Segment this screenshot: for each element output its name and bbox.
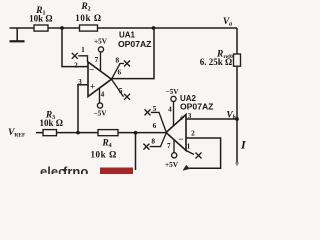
node Vb junction (235, 117, 239, 121)
svg-text:6: 6 (153, 121, 157, 130)
node R1-R2 junction (60, 26, 64, 30)
resistor R2 (80, 25, 98, 31)
svg-text:4: 4 (168, 105, 172, 114)
pin 5 stub U1 (112, 79, 131, 100)
svg-text:3: 3 (188, 111, 192, 120)
node R3-R4 junction (76, 131, 80, 135)
resistor R1 (34, 25, 48, 31)
arrow sense loop end (183, 165, 191, 171)
wire U1 inverting input branch (62, 28, 88, 67)
pin 1 stub U2 (186, 151, 202, 159)
svg-text:−5V: −5V (165, 87, 179, 96)
svg-text:−: − (178, 134, 183, 144)
svg-text:6. 25k Ω: 6. 25k Ω (200, 57, 232, 67)
svg-text:+: + (90, 82, 95, 92)
op-amp U2 (166, 113, 186, 151)
svg-text:7: 7 (167, 141, 171, 150)
pin 7 supply stub U2 (172, 140, 177, 158)
svg-text:10k Ω: 10k Ω (75, 13, 101, 23)
op-amp U1 (88, 62, 112, 97)
node R2-feedback junction (152, 26, 156, 30)
pin 8 stub U2 (143, 134, 166, 150)
pin 8 stub U1 (112, 61, 131, 80)
svg-text:10k Ω: 10k Ω (90, 149, 116, 159)
svg-text:3: 3 (78, 77, 82, 86)
svg-text:5: 5 (119, 86, 123, 95)
resistor R3 (43, 130, 57, 136)
wire right rail (236, 28, 238, 163)
svg-text:2: 2 (74, 61, 78, 70)
svg-text:7: 7 (95, 55, 99, 64)
wire U2 pin3 to Vb node (186, 118, 237, 120)
svg-text:+: + (179, 113, 184, 123)
svg-text:+5V: +5V (94, 37, 108, 46)
svg-text:1: 1 (187, 142, 191, 151)
pin 1 stub U1 (72, 53, 88, 63)
svg-text:elec: elec (40, 164, 65, 174)
svg-text:−: − (89, 64, 94, 74)
svg-text:2: 2 (191, 129, 195, 138)
wire load branch down (135, 133, 137, 170)
resistor Rref0 (234, 54, 241, 66)
svg-text:8: 8 (115, 56, 119, 65)
svg-text:8: 8 (151, 137, 155, 146)
svg-text:+5V: +5V (165, 160, 179, 169)
node R4-U2 junction (134, 131, 138, 135)
svg-text:10k Ω: 10k Ω (39, 118, 62, 128)
svg-text:OP07AZ: OP07AZ (180, 102, 213, 112)
pin 4 supply stub U2 (171, 96, 176, 126)
resistor R4 (98, 130, 118, 136)
pin 4 supply stub U1 (97, 88, 102, 108)
ground (16, 28, 18, 41)
svg-text:−5V: −5V (93, 109, 107, 118)
svg-text:OP07AZ: OP07AZ (118, 39, 151, 49)
svg-text:5: 5 (153, 104, 157, 113)
wire U1 output feedback (112, 28, 155, 79)
wire top rail (10, 27, 238, 29)
arrow current I (235, 162, 239, 166)
svg-text:4: 4 (101, 90, 105, 99)
svg-text:1: 1 (81, 45, 85, 54)
pin 7 supply stub U1 (98, 47, 103, 71)
pin 5 stub U2 (145, 109, 167, 131)
wire U1 non-inverting input branch (78, 85, 88, 133)
svg-text:6: 6 (117, 68, 121, 77)
svg-text:frno: frno (63, 164, 88, 174)
wire U2 pin2 sense loop (185, 138, 221, 168)
svg-text:10k Ω: 10k Ω (29, 14, 52, 24)
wire bottom rail (36, 132, 166, 134)
